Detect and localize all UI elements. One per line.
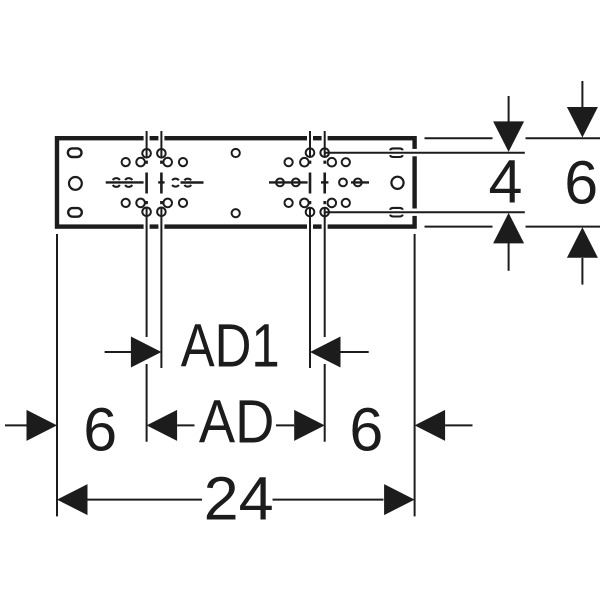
dimension AD1 left arrow <box>105 337 162 368</box>
left extension line (24 / 6) <box>56 234 58 516</box>
right cluster small holes right pair <box>339 179 362 187</box>
right cluster top row of holes <box>285 158 350 167</box>
svg-text:24: 24 <box>204 464 274 532</box>
dimension 24 right arrow <box>273 484 415 515</box>
left cluster hidden holes (dashed) left pair <box>113 178 133 187</box>
left slot hole bottom <box>68 208 82 217</box>
dimension 6 upper arrow <box>567 81 598 138</box>
right cluster centerline x=310 (AD1 extent) <box>309 131 311 368</box>
svg-text:4: 4 <box>489 148 523 216</box>
right cluster horizontal centerline right part <box>351 181 369 183</box>
left slot hole top <box>68 148 82 157</box>
right cluster holes on centerlines <box>306 148 329 216</box>
right circular hole middle <box>391 177 403 189</box>
left cluster bottom row of holes <box>122 199 187 208</box>
left cluster hidden holes (dashed) right pair <box>172 179 191 187</box>
dimension 4 upper arrow <box>493 96 524 152</box>
svg-text:6: 6 <box>564 148 598 216</box>
leader line bottom (dimension 4) <box>325 211 525 213</box>
left cluster top row of holes <box>122 158 187 167</box>
dimension 6 lower arrow <box>567 227 598 284</box>
center hole bottom <box>232 209 240 217</box>
svg-text:6: 6 <box>349 396 383 464</box>
svg-text:AD: AD <box>199 388 275 456</box>
right hidden slot bottom (dashed) <box>390 208 403 217</box>
left cluster centerline x=146.6 (AD extent) <box>146 131 148 442</box>
right hidden slot top (dashed) <box>390 148 403 157</box>
white gaps in plate edges where centerlines and leader lines cross <box>144 135 418 229</box>
right cluster small holes left pair <box>276 179 300 187</box>
plate outline <box>57 138 415 226</box>
dimension 24 left arrow <box>57 484 202 515</box>
dimension AD left arrow <box>147 410 195 441</box>
dimension AD1 right arrow <box>310 337 369 368</box>
left cluster horizontal centerline left part <box>106 181 144 183</box>
left cluster holes on centerlines <box>142 149 165 216</box>
dimension 4 lower arrow <box>493 213 524 271</box>
svg-text:6: 6 <box>83 395 117 463</box>
right cluster bottom row of holes <box>285 199 350 208</box>
dimension 6 left outer arrow <box>5 410 57 441</box>
left circular hole middle <box>69 177 82 190</box>
left cluster centerline tick <box>158 181 164 183</box>
plate top edge extension line (dimension 6) <box>425 137 600 139</box>
right cluster centerline tick <box>321 181 328 183</box>
dimension AD right arrow <box>276 410 325 441</box>
left cluster horizontal centerline right part <box>181 181 204 183</box>
svg-text:AD1: AD1 <box>181 311 280 379</box>
center hole top <box>232 149 240 157</box>
plate bottom edge extension line (dimension 6) <box>425 226 600 228</box>
dimension 6 right outer arrow <box>415 410 473 441</box>
left cluster centerline x=161.4 (AD1 extent) <box>160 131 162 368</box>
right cluster horizontal centerline left part <box>269 181 308 183</box>
right extension line (24 / 6) <box>414 234 416 516</box>
right cluster centerline x=324.7 (AD extent) <box>324 131 326 442</box>
leader line top (dimension 4) <box>325 152 525 154</box>
